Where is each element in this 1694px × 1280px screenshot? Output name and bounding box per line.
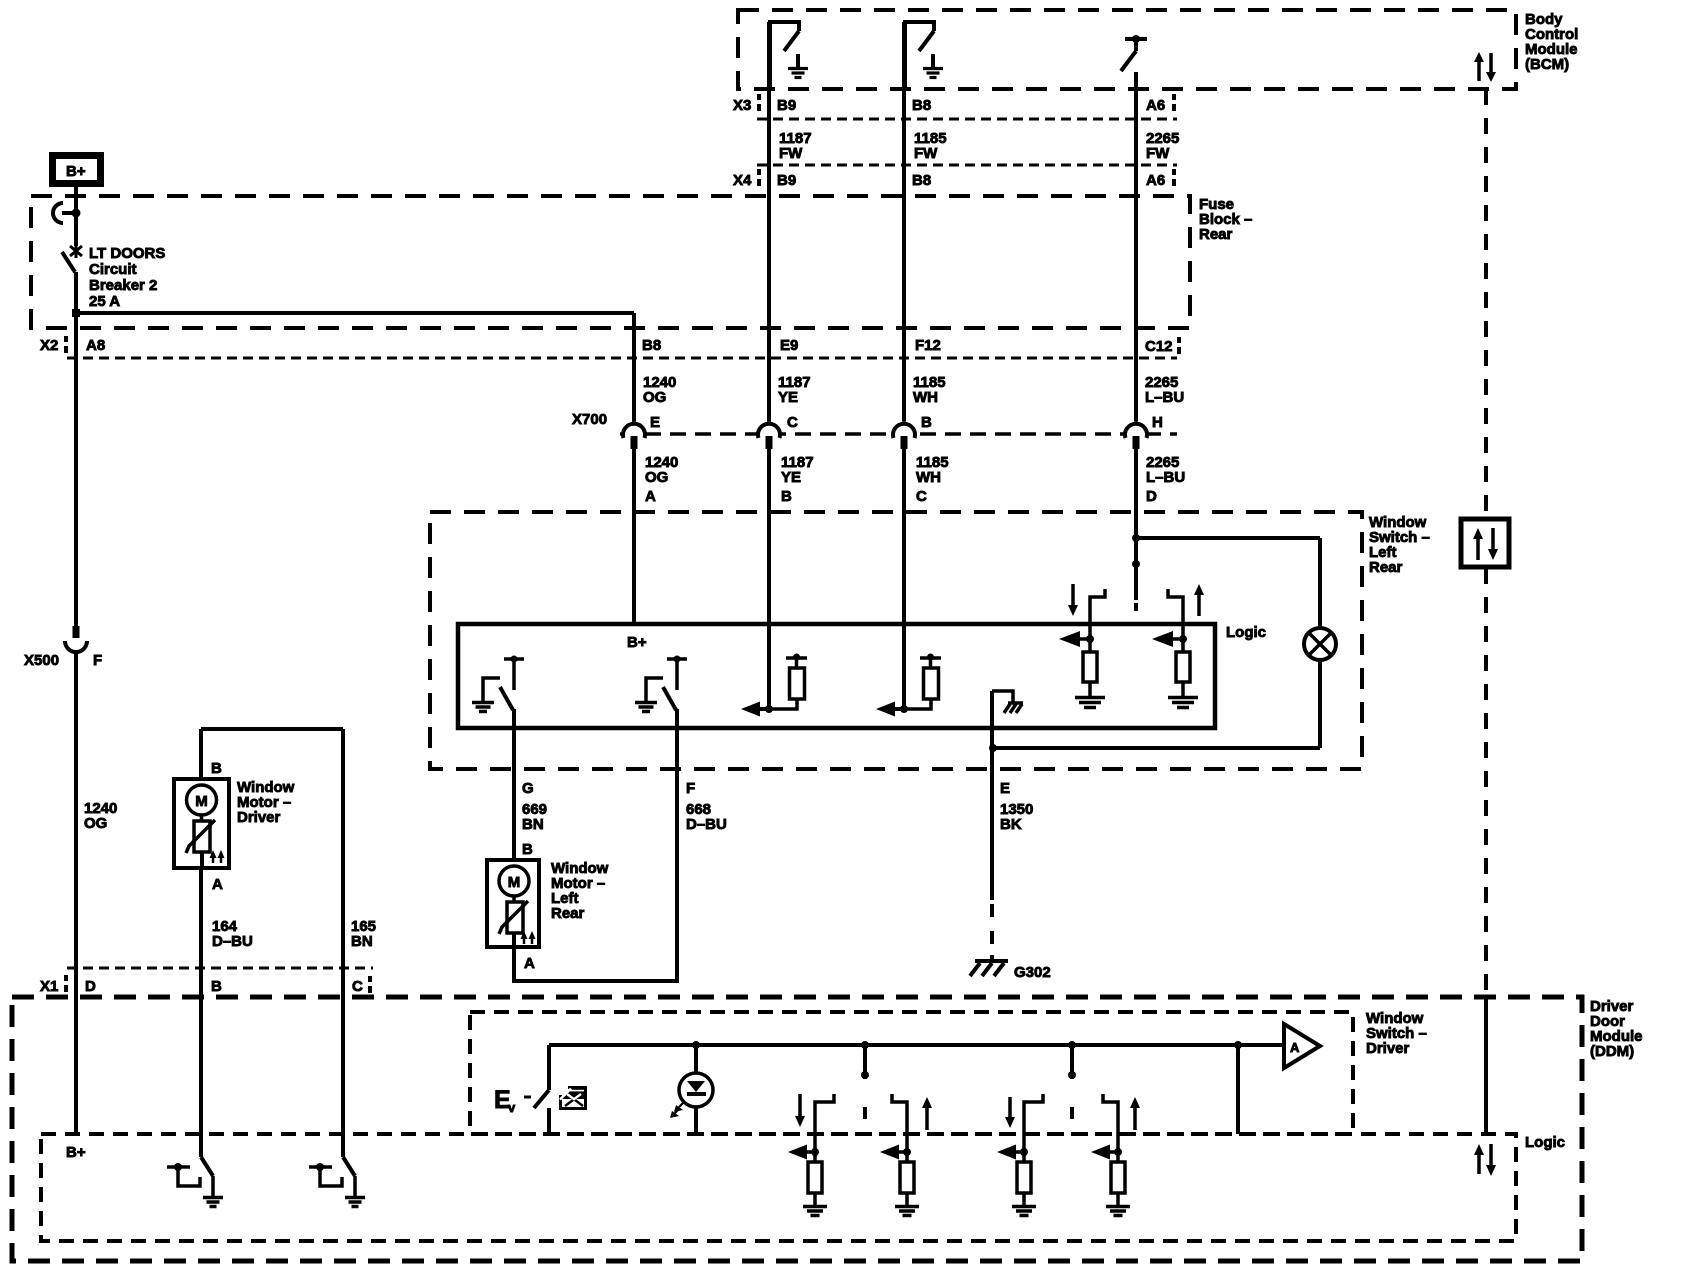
- svg-text:A: A: [212, 876, 223, 893]
- svg-text:C: C: [352, 978, 363, 995]
- svg-text:X3: X3: [733, 97, 751, 114]
- svg-text:F: F: [686, 780, 695, 797]
- svg-text:v: v: [508, 1100, 516, 1115]
- svg-text:X2: X2: [40, 337, 58, 354]
- svg-text:OG: OG: [643, 389, 666, 406]
- svg-text:B+: B+: [627, 634, 647, 651]
- svg-text:B: B: [522, 841, 533, 858]
- svg-text:B9: B9: [777, 172, 796, 189]
- svg-text:A: A: [1290, 1040, 1300, 1055]
- svg-text:D–BU: D–BU: [212, 933, 253, 950]
- svg-text:YE: YE: [781, 469, 801, 486]
- svg-text:C12: C12: [1145, 338, 1173, 355]
- svg-text:L–BU: L–BU: [1146, 469, 1185, 486]
- svg-text:OG: OG: [645, 469, 668, 486]
- svg-text:Logic: Logic: [1226, 624, 1266, 641]
- svg-text:D: D: [85, 978, 96, 995]
- svg-text:BK: BK: [1000, 816, 1022, 833]
- svg-text:BN: BN: [522, 816, 544, 833]
- svg-text:X700: X700: [572, 411, 607, 428]
- svg-text:WH: WH: [916, 469, 941, 486]
- svg-text:WH: WH: [913, 389, 938, 406]
- svg-text:B: B: [211, 760, 222, 777]
- svg-text:YE: YE: [778, 389, 798, 406]
- svg-text:B9: B9: [777, 97, 796, 114]
- svg-text:A6: A6: [1146, 97, 1165, 114]
- svg-text:(BCM): (BCM): [1525, 56, 1569, 73]
- svg-text:LT DOORS: LT DOORS: [89, 245, 165, 262]
- svg-text:B8: B8: [912, 172, 931, 189]
- svg-text:A: A: [645, 488, 656, 505]
- svg-text:D: D: [1146, 488, 1157, 505]
- svg-text:25 A: 25 A: [89, 293, 120, 310]
- svg-text:B+: B+: [66, 1144, 86, 1161]
- svg-text:B8: B8: [642, 337, 661, 354]
- svg-text:B: B: [211, 978, 222, 995]
- svg-text:B: B: [921, 414, 932, 431]
- svg-text:FW: FW: [914, 145, 938, 162]
- svg-text:(DDM): (DDM): [1590, 1043, 1634, 1060]
- svg-text:Rear: Rear: [551, 905, 585, 922]
- svg-text:B8: B8: [912, 97, 931, 114]
- svg-text:Logic: Logic: [1525, 1134, 1565, 1151]
- svg-text:E: E: [1000, 780, 1010, 797]
- svg-text:A6: A6: [1146, 172, 1165, 189]
- svg-text:F: F: [93, 652, 102, 669]
- svg-text:B+: B+: [66, 163, 86, 180]
- svg-text:L–BU: L–BU: [1145, 389, 1184, 406]
- svg-text:Breaker 2: Breaker 2: [89, 277, 157, 294]
- svg-text:FW: FW: [779, 145, 803, 162]
- svg-text:X4: X4: [733, 172, 752, 189]
- svg-text:Driver: Driver: [1366, 1040, 1410, 1057]
- svg-text:F12: F12: [915, 337, 941, 354]
- svg-text:BN: BN: [351, 933, 373, 950]
- svg-text:E9: E9: [780, 337, 798, 354]
- svg-text:M: M: [195, 793, 208, 810]
- svg-text:FW: FW: [1146, 145, 1170, 162]
- svg-text:E: E: [650, 414, 660, 431]
- svg-text:OG: OG: [84, 815, 107, 832]
- svg-text:Rear: Rear: [1199, 226, 1233, 243]
- svg-text:A8: A8: [86, 337, 105, 354]
- svg-text:C: C: [916, 488, 927, 505]
- svg-text:G: G: [522, 780, 534, 797]
- svg-text:G302: G302: [1014, 964, 1051, 981]
- svg-text:D–BU: D–BU: [686, 816, 727, 833]
- svg-text:Driver: Driver: [237, 809, 281, 826]
- svg-text:Rear: Rear: [1369, 559, 1403, 576]
- svg-text:A: A: [524, 955, 535, 972]
- svg-text:X500: X500: [24, 652, 59, 669]
- svg-text:X1: X1: [40, 978, 58, 995]
- svg-text:H: H: [1152, 414, 1163, 431]
- svg-text:Circuit: Circuit: [89, 261, 137, 278]
- svg-text:C: C: [787, 414, 798, 431]
- svg-text:B: B: [781, 488, 792, 505]
- svg-text:M: M: [508, 874, 521, 891]
